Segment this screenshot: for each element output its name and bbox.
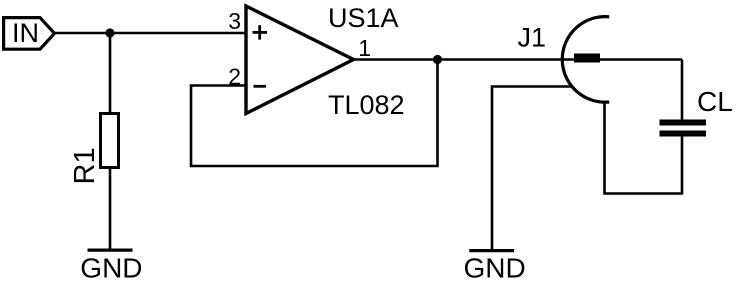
wire sleeve to capacitor bottom <box>605 102 683 194</box>
wire junction to R1 <box>109 33 112 112</box>
capacitor CL <box>660 120 707 137</box>
svg-text:J1: J1 <box>518 23 547 53</box>
svg-text:1: 1 <box>358 35 371 61</box>
wire sleeve to ground <box>492 87 573 252</box>
node output junction <box>433 55 442 64</box>
svg-text:CL: CL <box>697 86 733 117</box>
ground GND left <box>80 250 142 283</box>
wire pin2 feedback loop <box>191 60 438 167</box>
svg-text:TL082: TL082 <box>328 90 405 120</box>
minus input marker <box>254 85 267 88</box>
node input junction <box>105 28 114 37</box>
ground GND right <box>464 251 526 284</box>
svg-text:GND: GND <box>464 252 526 283</box>
wire output <box>352 58 682 61</box>
svg-text:US1A: US1A <box>328 3 399 33</box>
svg-text:GND: GND <box>80 252 142 283</box>
svg-text:3: 3 <box>228 8 241 34</box>
connector J1 tip contact <box>574 54 600 63</box>
op-amp U1 triangle <box>246 6 354 114</box>
connector J1 sleeve arc <box>562 17 609 103</box>
wire output to capacitor top <box>681 60 684 121</box>
resistor R1 <box>101 114 119 168</box>
plus input marker <box>253 25 268 39</box>
wire R1 to ground <box>109 169 112 250</box>
svg-text:R1: R1 <box>69 147 101 184</box>
svg-text:IN: IN <box>12 18 39 48</box>
port IN <box>4 18 55 50</box>
wire input <box>55 32 247 35</box>
